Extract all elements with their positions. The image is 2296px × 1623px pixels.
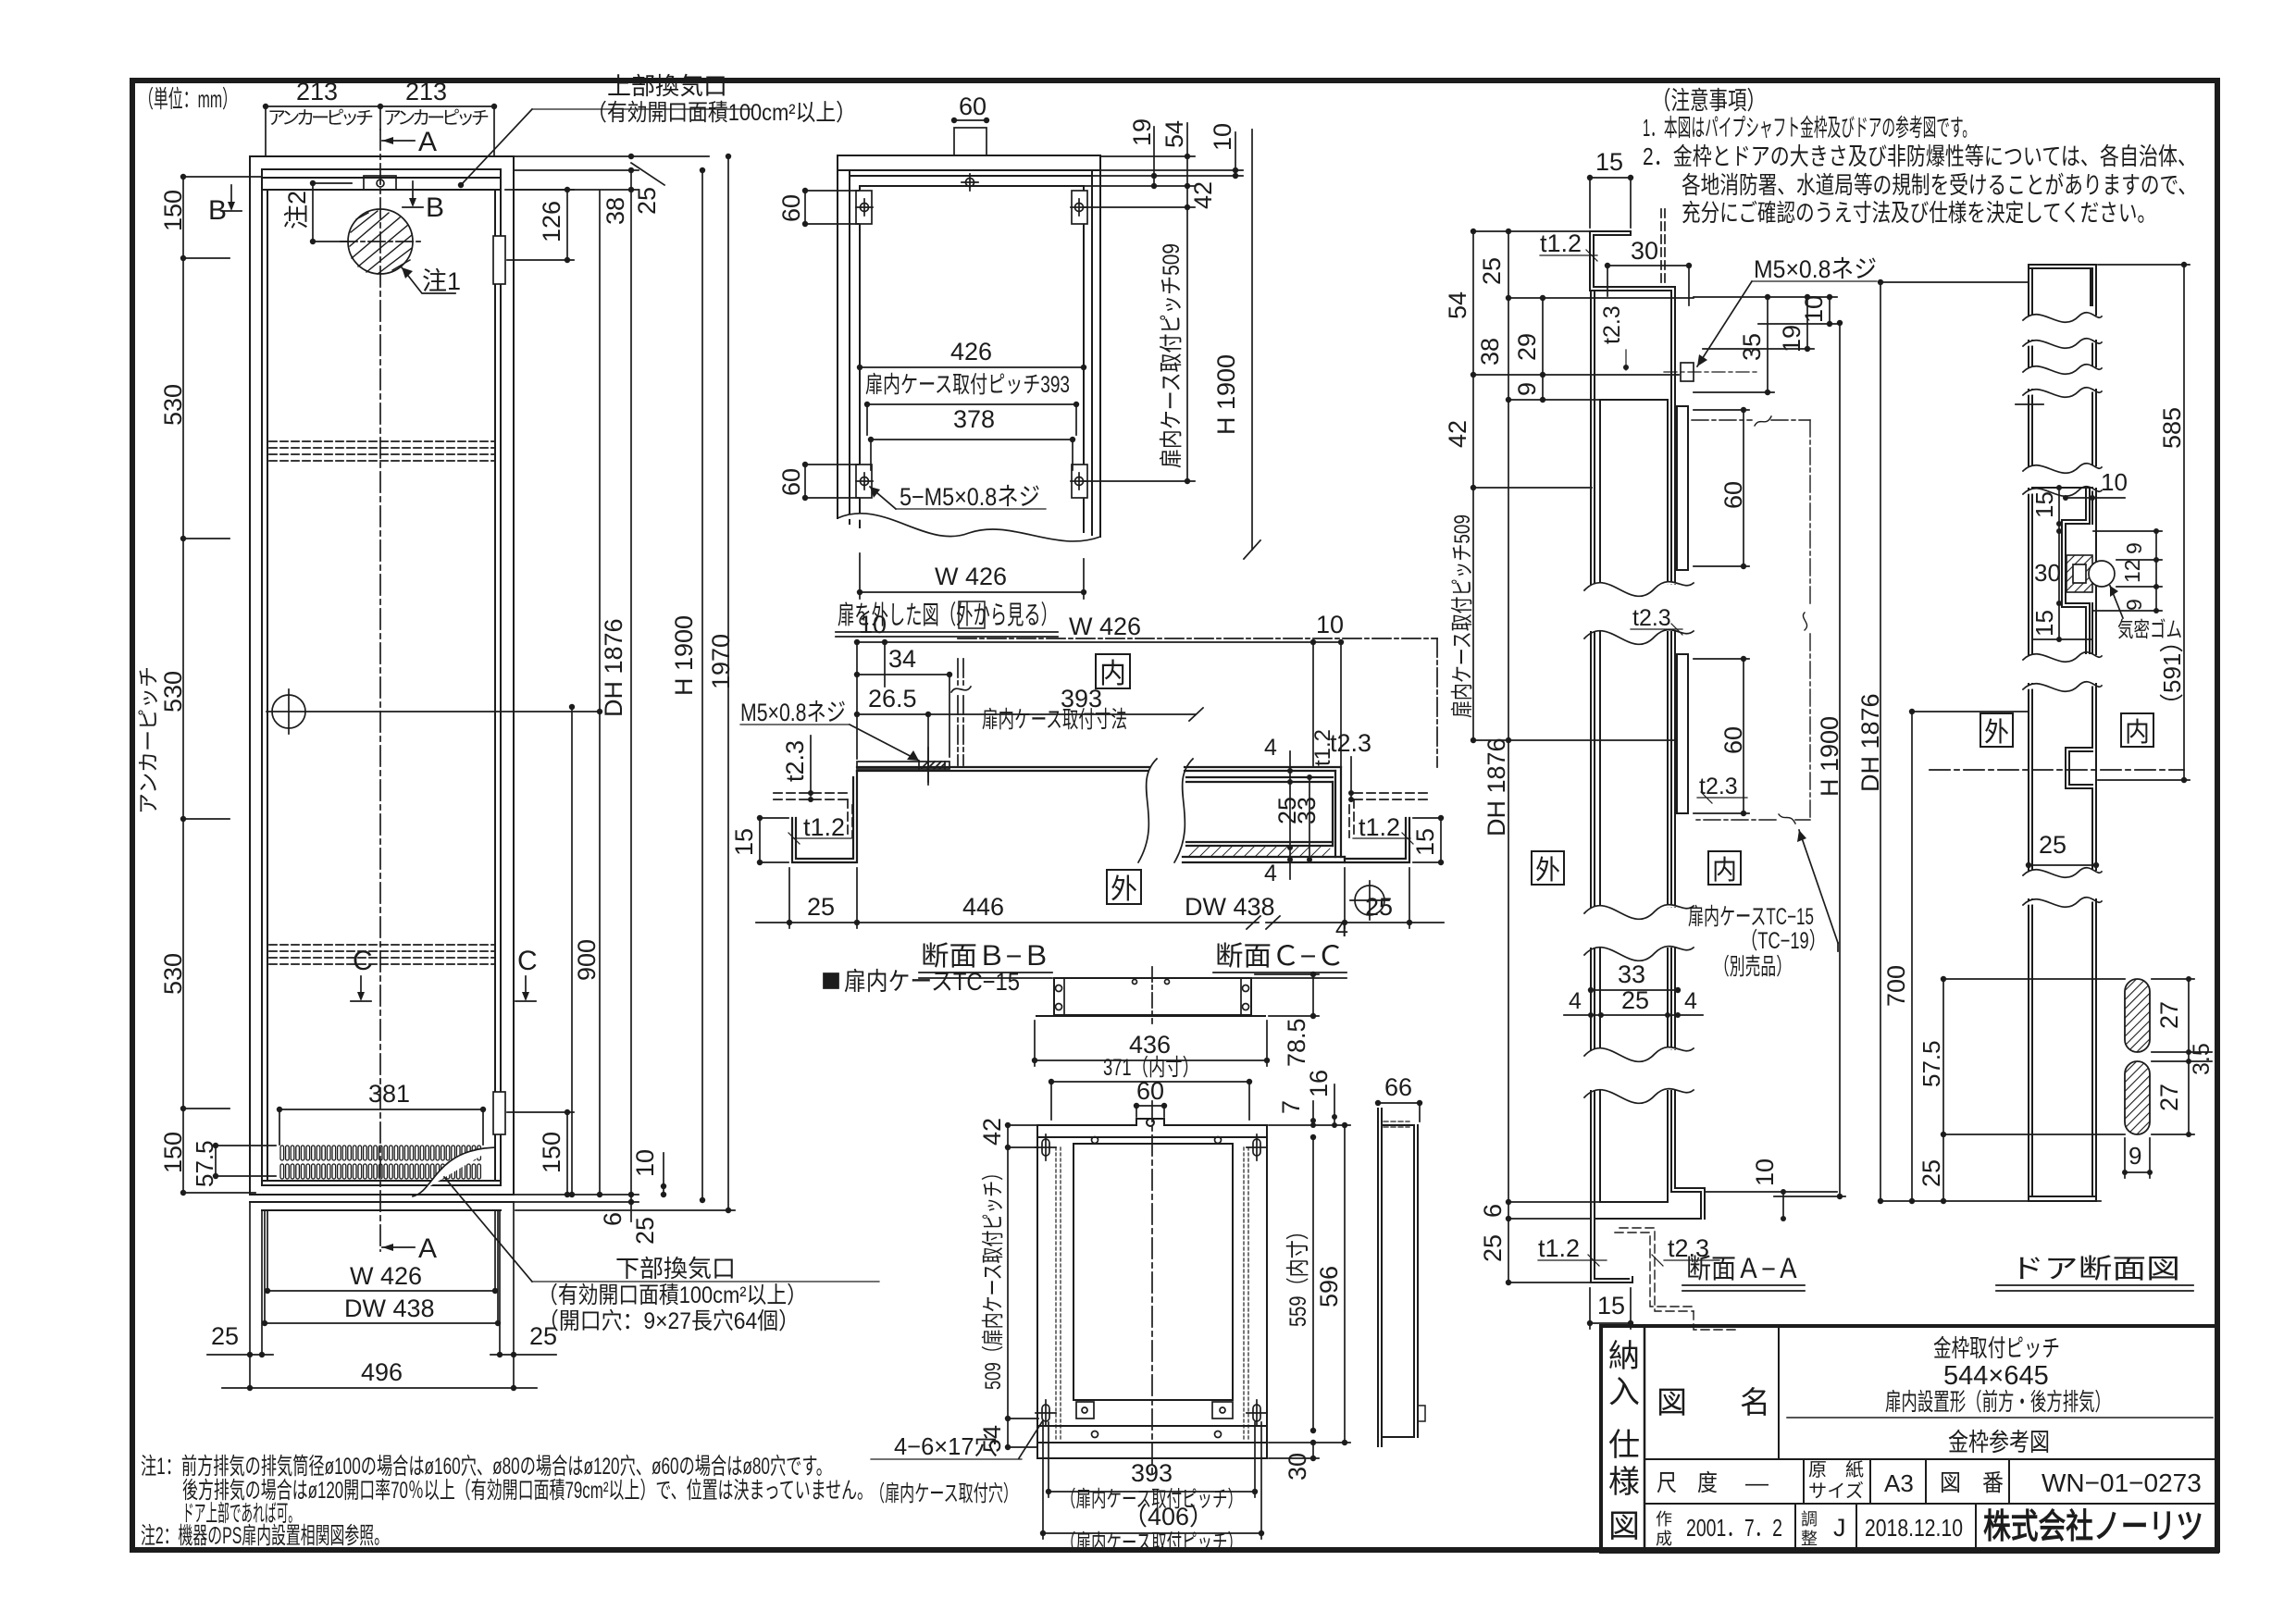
svg-text:700: 700	[1882, 965, 1910, 1007]
dim 436	[1032, 1021, 1270, 1066]
door boxes 外 内	[1980, 713, 2013, 747]
TC-15 plan view	[1036, 967, 1265, 1023]
svg-text:57.5: 57.5	[1917, 1040, 1945, 1087]
svg-text:（扉内ケース取付ピッチ）: （扉内ケース取付ピッチ）	[1061, 1530, 1243, 1555]
top anchor bracket	[364, 176, 396, 190]
svg-text:金枠参考図: 金枠参考図	[1948, 1429, 2050, 1456]
svg-text:t2.3: t2.3	[1699, 774, 1738, 799]
svg-text:10: 10	[631, 1149, 659, 1177]
dim 54 and 42 and 509	[1085, 123, 1195, 484]
dim 381	[277, 1107, 486, 1145]
label 下部換気口 with leader	[538, 1255, 807, 1334]
svg-text:4−6×17穴: 4−6×17穴	[894, 1432, 998, 1460]
svg-text:30: 30	[2034, 559, 2061, 587]
svg-text:25: 25	[631, 1217, 659, 1245]
caution notes 注意事項 top right	[1643, 87, 2197, 227]
svg-text:25: 25	[1917, 1159, 1945, 1187]
dim DH 1876 right	[597, 191, 602, 1197]
svg-text:内: 内	[2125, 717, 2150, 748]
A-A case hidden dash-dot outline	[1692, 420, 1810, 820]
box 内 inside mark	[1096, 654, 1130, 688]
svg-text:アンカーピッチ: アンカーピッチ	[383, 108, 490, 129]
svg-text:559（内寸）: 559（内寸）	[1285, 1221, 1311, 1327]
pocket dims 9 12 9 right	[2093, 528, 2162, 613]
svg-text:（有効開口面積100cm²以上）: （有効開口面積100cm²以上）	[538, 1282, 807, 1308]
svg-text:66: 66	[1384, 1073, 1412, 1101]
dim 150 right bottom	[507, 1109, 574, 1197]
dim 496 bottom	[222, 1385, 537, 1391]
svg-text:H 1900: H 1900	[670, 615, 698, 696]
backing plate dashed band upper	[269, 441, 495, 461]
svg-text:t1.2: t1.2	[803, 813, 845, 841]
svg-text:W 426: W 426	[935, 563, 1007, 590]
C-C t2.3 dim right	[1348, 757, 1354, 802]
svg-text:W 426: W 426	[1069, 613, 1141, 640]
A-A box 内	[1708, 851, 1741, 885]
svg-text:サイズ: サイズ	[1808, 1481, 1864, 1502]
TC-15 side view	[1378, 1109, 1425, 1446]
TC-15 mounting holes	[1036, 1134, 1267, 1426]
anchor pitch dim chain left	[180, 174, 262, 1196]
dim DW438 bottom	[262, 1320, 501, 1326]
title ドア断面図	[2010, 1254, 2180, 1284]
svg-text:成: 成	[1656, 1530, 1672, 1548]
dim 700 door section	[1880, 709, 2101, 1204]
svg-text:扉内設置形（前方・後方排気）: 扉内設置形（前方・後方排気）	[1885, 1388, 2111, 1416]
section A-A head profile	[1590, 231, 1675, 584]
svg-text:下部換気口: 下部換気口	[615, 1255, 736, 1282]
svg-text:納: 納	[1608, 1339, 1640, 1374]
svg-text:19: 19	[1778, 325, 1806, 353]
pocket dims 15 30 15 10	[2032, 485, 2125, 642]
svg-text:株式会社ノーリツ: 株式会社ノーリツ	[1983, 1507, 2203, 1545]
B-B label M5x0.8	[740, 725, 919, 761]
svg-text:5−M5×0.8ネジ: 5−M5×0.8ネジ	[900, 483, 1040, 511]
svg-text:J: J	[1833, 1514, 1846, 1542]
label 上部換気口 with leader	[587, 72, 856, 126]
svg-text:t1.2: t1.2	[1359, 813, 1400, 841]
svg-text:9: 9	[2128, 1142, 2141, 1170]
dim W426 below	[857, 553, 1086, 599]
svg-text:図: 図	[1657, 1385, 1687, 1419]
svg-text:アンカーピッチ: アンカーピッチ	[267, 108, 374, 129]
A-A t2.3 label break1	[1631, 624, 1682, 635]
A-A dim 6 and 25 bottom	[1508, 1202, 1601, 1282]
svg-text:扉内ケース取付寸法: 扉内ケース取付寸法	[982, 707, 1127, 733]
svg-text:27: 27	[2155, 1084, 2183, 1111]
dim 900 right	[569, 704, 575, 1197]
A-A break 3	[1584, 1047, 1694, 1104]
break wave bottom of view	[838, 514, 1100, 541]
A-A left dim line B	[1473, 229, 1694, 1285]
svg-text:213: 213	[405, 78, 447, 105]
svg-text:54: 54	[1160, 120, 1188, 148]
svg-text:34: 34	[888, 645, 916, 673]
svg-text:10: 10	[2101, 468, 2128, 496]
svg-text:33: 33	[1293, 797, 1321, 824]
svg-text:WN−01−0273: WN−01−0273	[2042, 1468, 2202, 1497]
svg-text:2001．7．2: 2001．7．2	[1686, 1514, 1782, 1542]
dim 10	[1233, 132, 1238, 179]
dim 6 and 25 bottom right	[514, 190, 639, 1221]
svg-text:530: 530	[159, 671, 187, 712]
svg-text:585: 585	[2158, 407, 2186, 449]
svg-text:C: C	[353, 946, 373, 976]
svg-text:126: 126	[538, 201, 565, 242]
svg-text:42: 42	[1189, 181, 1217, 209]
right dim 559 内寸	[1310, 1134, 1316, 1433]
side tab lower-right	[1071, 465, 1087, 498]
svg-text:—: —	[1745, 1470, 1769, 1496]
svg-text:3.5: 3.5	[2189, 1043, 2215, 1075]
svg-text:60: 60	[777, 468, 805, 496]
door latch pocket	[2032, 488, 2092, 653]
svg-text:A: A	[418, 127, 437, 157]
svg-text:7: 7	[1277, 1100, 1305, 1114]
door section break waves	[2023, 313, 2102, 908]
door grip dims 27 3.5 27 9	[2122, 976, 2212, 1178]
dim 15 right	[1413, 815, 1444, 865]
svg-text:15: 15	[730, 828, 758, 856]
svg-text:注2: 注2	[283, 191, 311, 229]
right dim 78.5	[1255, 972, 1319, 1019]
C-C insulation hatch	[1189, 847, 1330, 856]
A-A t2.3 bottom label	[1652, 1255, 1719, 1266]
svg-text:4: 4	[1264, 735, 1277, 761]
box 外 outside mark	[1107, 870, 1141, 904]
svg-text:25: 25	[1479, 1234, 1507, 1262]
svg-text:596: 596	[1315, 1266, 1343, 1307]
svg-text:33: 33	[1618, 960, 1645, 988]
svg-text:213: 213	[296, 78, 338, 105]
section arrow A bottom	[382, 1244, 415, 1251]
svg-text:A3: A3	[1884, 1469, 1914, 1497]
svg-text:注1：前方排気の排気筒径ø100の場合はø160穴、ø80の: 注1：前方排気の排気筒径ø100の場合はø160穴、ø80の場合はø120穴、ø…	[141, 1454, 832, 1480]
svg-text:12: 12	[2120, 559, 2144, 583]
svg-text:10: 10	[859, 611, 887, 638]
svg-text:19: 19	[1128, 118, 1156, 146]
door dim 585 591	[2098, 262, 2190, 783]
svg-text:381: 381	[368, 1080, 410, 1108]
right dim 16 and 7	[1310, 1084, 1337, 1128]
A-A dim 15 bottom	[1587, 1288, 1633, 1329]
title 断面A-A	[1686, 1254, 1801, 1284]
svg-text:外: 外	[1535, 855, 1560, 886]
svg-text:DH 1876: DH 1876	[1856, 693, 1884, 792]
TC-15 front view body	[1037, 1119, 1267, 1458]
C-C hidden wall bar dashed right	[1349, 793, 1428, 837]
dim 393 case pitch	[865, 372, 1070, 398]
side tab upper-right	[1071, 191, 1087, 224]
svg-text:（注意事項）: （注意事項）	[1652, 87, 1766, 115]
gasket label leader	[2110, 586, 2123, 618]
A-A piece2 verticals	[1591, 632, 1675, 907]
svg-text:4: 4	[1335, 916, 1348, 942]
svg-text:仕: 仕	[1608, 1428, 1640, 1463]
svg-text:断面Ｃ−Ｃ: 断面Ｃ−Ｃ	[1215, 941, 1345, 972]
enlargement break curve at vent	[413, 1147, 495, 1196]
A-A t2.3 rotated label	[1623, 350, 1629, 370]
svg-text:38: 38	[602, 197, 629, 225]
TC-15 dotted side columns	[1056, 1147, 1248, 1439]
title block texts	[1608, 1334, 2203, 1548]
svg-text:544×645: 544×645	[1943, 1361, 2049, 1391]
svg-text:（有効開口面積100cm²以上）: （有効開口面積100cm²以上）	[587, 100, 856, 126]
svg-text:29: 29	[1513, 333, 1541, 361]
svg-text:外: 外	[1111, 874, 1137, 905]
label 4-6x17穴	[871, 1420, 1043, 1459]
A-A hidden sill dashed	[1615, 1228, 1740, 1330]
A-A dim 10 bottom right	[1705, 1189, 1837, 1221]
latch block lower	[493, 1092, 505, 1134]
svg-text:4: 4	[1264, 861, 1277, 886]
svg-text:38: 38	[1476, 338, 1504, 365]
front view frame outer rect	[250, 156, 514, 1210]
svg-text:30: 30	[1631, 237, 1658, 265]
B-B frame channel profile	[792, 767, 1153, 862]
right dim 596	[1269, 1122, 1350, 1445]
dim 371 内寸	[1049, 1079, 1252, 1120]
svg-text:4: 4	[1569, 988, 1582, 1014]
A-A break 1	[1584, 582, 1694, 645]
top dim 213 213 anchor pitch	[263, 104, 497, 156]
hidden case dashed verticals with break	[958, 638, 1437, 767]
svg-text:扉内ケースTC−15: 扉内ケースTC−15	[1688, 904, 1814, 930]
dim 25 / 446 bottom B-B	[756, 868, 1260, 929]
svg-text:150: 150	[159, 190, 187, 231]
svg-text:60: 60	[1719, 481, 1747, 509]
B-B hidden wall bar dashed	[774, 793, 852, 837]
svg-text:10: 10	[1316, 611, 1344, 638]
svg-text:54: 54	[1444, 291, 1471, 319]
lower vent slot rows	[280, 1146, 480, 1179]
door section faces	[2029, 265, 2096, 1201]
dim DW438 / 25 bottom C-C	[1266, 868, 1444, 929]
svg-text:25: 25	[1621, 986, 1649, 1014]
svg-text:DW 438: DW 438	[1185, 893, 1275, 921]
svg-text:DH 1876: DH 1876	[1483, 737, 1510, 836]
C-C break wave left edge	[1174, 759, 1193, 862]
t1.2 label left channel	[788, 833, 851, 844]
注1 leader	[402, 267, 455, 293]
svg-text:（591）: （591）	[2158, 629, 2186, 717]
A-A dim 60 lower tab	[1694, 656, 1749, 816]
svg-text:t1.2: t1.2	[1310, 729, 1335, 766]
svg-text:原 紙: 原 紙	[1808, 1459, 1864, 1481]
A-A hidden anchor dashed	[1661, 209, 1665, 285]
left dim 42 509 54	[1005, 1122, 1038, 1450]
A-A dims 29 and 9	[1540, 295, 1545, 403]
svg-text:1970: 1970	[707, 634, 735, 689]
svg-text:B: B	[208, 195, 227, 226]
svg-text:作: 作	[1656, 1510, 1672, 1529]
section arrow A top	[382, 137, 415, 144]
unit note 単位mm	[139, 85, 237, 113]
TC-15 centreline	[1151, 1101, 1153, 1473]
svg-text:378: 378	[953, 405, 995, 433]
svg-text:42: 42	[978, 1118, 1006, 1146]
B-B dim 34	[854, 672, 952, 757]
svg-text:内: 内	[1712, 855, 1737, 886]
gasket 気密ゴム	[2066, 555, 2115, 592]
dim H1900 of door-removed view	[1244, 130, 1260, 559]
svg-text:446: 446	[962, 893, 1004, 921]
svg-text:35: 35	[1738, 333, 1766, 361]
B-B break wave right edge	[1138, 759, 1157, 862]
svg-text:60: 60	[777, 194, 805, 222]
TC-15 label	[824, 973, 838, 988]
section mark C right	[517, 946, 538, 976]
section mark B left	[221, 185, 242, 211]
t1.2 label right channel	[1353, 833, 1413, 844]
B-B case mounting plate with screw	[857, 748, 949, 785]
svg-text:尺 度: 尺 度	[1657, 1470, 1718, 1496]
svg-text:10: 10	[1209, 123, 1236, 151]
dim 25 25 bottom pair	[207, 1352, 556, 1357]
label 5-M5 screw	[870, 487, 1046, 509]
A-A break 2	[1584, 905, 1694, 961]
svg-text:内: 内	[1099, 659, 1126, 689]
A-A box 外	[1532, 851, 1564, 885]
svg-text:t2.3: t2.3	[1599, 305, 1625, 344]
svg-text:15: 15	[1597, 1292, 1625, 1319]
circled cross C-C	[1350, 881, 1389, 920]
svg-text:25: 25	[1478, 257, 1506, 285]
svg-text:10: 10	[1751, 1158, 1779, 1186]
dim 60 notch	[1134, 1103, 1167, 1117]
door grips hatched	[2125, 979, 2150, 1134]
dim 19	[1084, 127, 1243, 189]
svg-text:t1.2: t1.2	[1540, 229, 1582, 257]
side tab lower-left	[856, 465, 873, 498]
svg-text:530: 530	[159, 953, 187, 995]
svg-text:30: 30	[1284, 1453, 1311, 1481]
svg-text:DH 1876: DH 1876	[600, 618, 627, 717]
svg-text:509（扉内ケース取付ピッチ）: 509（扉内ケース取付ピッチ）	[981, 1164, 1006, 1390]
svg-text:25: 25	[529, 1322, 557, 1350]
svg-text:（406）: （406）	[1123, 1503, 1214, 1530]
svg-text:15: 15	[1411, 828, 1439, 856]
svg-text:調: 調	[1801, 1510, 1818, 1529]
svg-text:78.5: 78.5	[1283, 1018, 1310, 1067]
backing plate dashed band lower	[269, 945, 495, 964]
door-removed view frame	[838, 155, 1100, 537]
svg-text:9: 9	[2122, 542, 2146, 554]
dim 15 left	[757, 815, 788, 865]
title 断面C-C	[1215, 941, 1345, 972]
svg-text:t1.2: t1.2	[1538, 1234, 1580, 1262]
B-B t2.3 dim left	[808, 736, 813, 802]
centre section line A (dash-dot)	[379, 130, 381, 1251]
dims 4 25 33 t1.2 in C-C	[1287, 751, 1312, 879]
svg-text:図 番: 図 番	[1940, 1470, 2004, 1496]
svg-text:15: 15	[2030, 610, 2058, 637]
break squiggles on hidden outline	[1755, 416, 1807, 824]
door dims 57.5 and 25 left	[1941, 976, 2125, 1204]
svg-text:6: 6	[599, 1212, 627, 1226]
svg-text:M5×0.8ネジ: M5×0.8ネジ	[1754, 255, 1877, 283]
A-A right dims 35 19 10	[1694, 294, 1837, 395]
svg-text:扉内ケース取付ピッチ393: 扉内ケース取付ピッチ393	[865, 372, 1070, 398]
svg-text:名: 名	[1740, 1385, 1770, 1419]
svg-text:M5×0.8ネジ: M5×0.8ネジ	[740, 699, 846, 726]
svg-text:26.5: 26.5	[868, 685, 917, 712]
svg-text:150: 150	[538, 1132, 565, 1173]
bottom dim 393 pitch	[1046, 1422, 1258, 1497]
svg-text:2．金枠とドアの大きさ及び非防爆性等については、各自治体、: 2．金枠とドアの大きさ及び非防爆性等については、各自治体、	[1643, 142, 2197, 170]
dim 1970 right	[515, 154, 735, 1213]
svg-text:t2.3: t2.3	[1330, 729, 1371, 757]
A-A case front	[1600, 400, 1688, 813]
right dim 30	[1269, 1440, 1319, 1461]
svg-text:150: 150	[159, 1132, 187, 1173]
svg-text:H 1900: H 1900	[1816, 716, 1843, 797]
svg-text:扉内ケース取付ピッチ509: 扉内ケース取付ピッチ509	[1450, 514, 1475, 718]
svg-text:注2：機器のPS扉内設置相関図参照。: 注2：機器のPS扉内設置相関図参照。	[141, 1523, 389, 1549]
A-A left dim line A 54 42 509	[1471, 229, 1679, 743]
caption 扉を外した図	[838, 601, 1058, 629]
B-B dim 393 case pitch	[928, 708, 1203, 782]
svg-text:25: 25	[807, 893, 835, 921]
door thickness dim 25	[2026, 862, 2099, 868]
B-B dim 26.5	[854, 712, 931, 717]
title block 納入仕様図	[1601, 1326, 2217, 1552]
section B-B / C-C top dim W426	[854, 639, 1344, 767]
lock centreline	[1930, 769, 2184, 771]
svg-text:25: 25	[2039, 831, 2066, 859]
A-A t2.3 label piece2	[1697, 792, 1747, 803]
dim 25 top right leader	[514, 154, 709, 185]
svg-text:図: 図	[1608, 1509, 1640, 1544]
svg-text:393: 393	[1131, 1459, 1173, 1487]
dim H 1900 right	[700, 167, 705, 1203]
svg-text:（単位：mm）: （単位：mm）	[139, 85, 237, 113]
A-A dim 30 top	[1605, 263, 1692, 305]
svg-text:9: 9	[2122, 599, 2146, 611]
svg-text:t2.3: t2.3	[781, 740, 809, 782]
dim 126 right	[505, 187, 574, 263]
svg-text:60: 60	[1136, 1077, 1164, 1105]
svg-text:（扉内ケース取付穴）: （扉内ケース取付穴）	[870, 1481, 1018, 1506]
door lock recess	[2066, 748, 2092, 788]
svg-text:（開口穴：9×27長穴64個）: （開口穴：9×27長穴64個）	[538, 1308, 800, 1334]
side tab upper-left	[856, 191, 873, 224]
svg-text:57.5: 57.5	[191, 1140, 218, 1187]
svg-text:496: 496	[361, 1358, 403, 1386]
dim 57.5 left	[213, 1143, 276, 1179]
dim W426 bottom	[265, 1288, 498, 1294]
svg-text:注1: 注1	[422, 267, 461, 295]
svg-text:扉内ケース取付ピッチ509: 扉内ケース取付ピッチ509	[1159, 243, 1185, 468]
svg-text:入: 入	[1608, 1375, 1640, 1410]
svg-text:25: 25	[211, 1322, 239, 1350]
svg-text:H 1900: H 1900	[1212, 354, 1240, 435]
svg-text:扉内ケースTC−15: 扉内ケースTC−15	[844, 968, 1020, 996]
svg-text:10: 10	[1800, 295, 1828, 323]
svg-text:60: 60	[959, 93, 987, 120]
svg-text:金枠取付ピッチ: 金枠取付ピッチ	[1933, 1334, 2060, 1362]
svg-text:後方排気の場合はø120開口率70％以上（有効開口面積79c: 後方排気の場合はø120開口率70％以上（有効開口面積79cm²以上）で、位置は…	[182, 1478, 873, 1504]
注2 dimension	[310, 180, 352, 244]
svg-text:6: 6	[1479, 1204, 1507, 1218]
latch block upper	[493, 236, 505, 284]
svg-text:外: 外	[1984, 717, 2009, 748]
dim 60 upper-left	[802, 188, 859, 227]
svg-text:426: 426	[950, 338, 992, 365]
svg-text:42: 42	[1444, 420, 1471, 448]
svg-text:4: 4	[1684, 988, 1697, 1014]
C-C frame channel right	[1345, 818, 1409, 862]
